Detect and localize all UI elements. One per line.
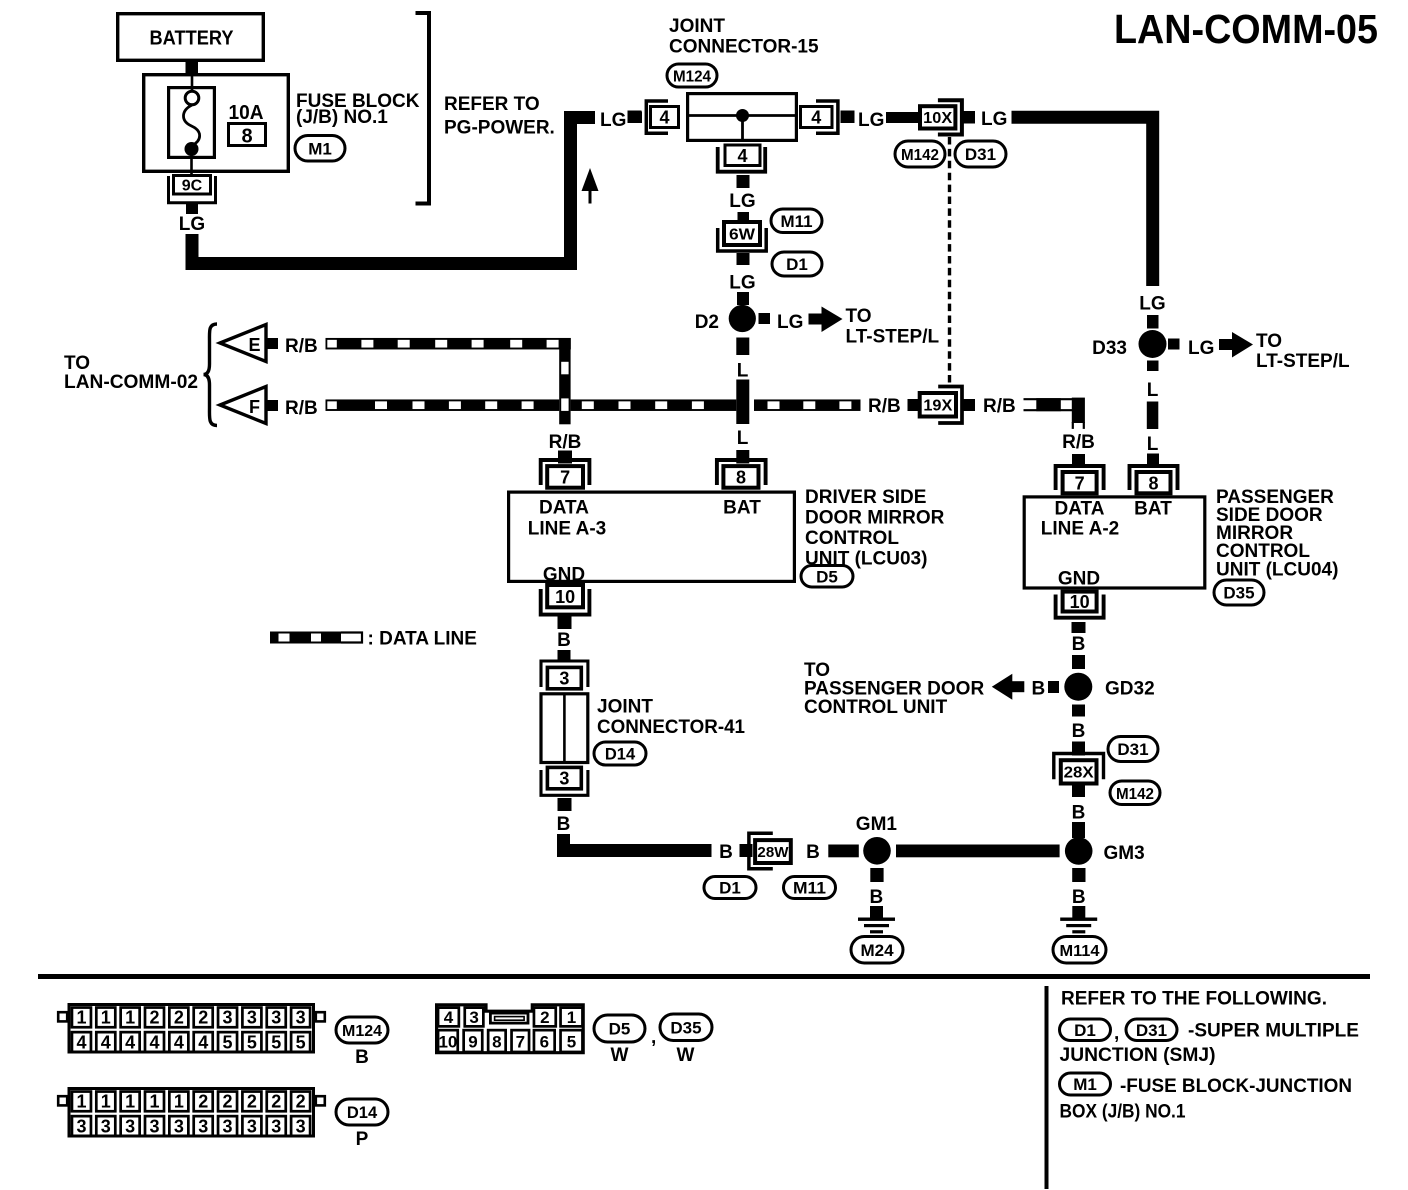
svg-text:2: 2	[198, 1008, 208, 1028]
svg-text:3: 3	[125, 1116, 135, 1136]
svg-text:4: 4	[149, 1032, 159, 1052]
wire stub below D2	[736, 338, 749, 356]
arrow to LT-STEP/L (D2)	[809, 314, 823, 325]
node D2	[695, 305, 756, 333]
svg-text:28X: 28X	[1064, 765, 1094, 782]
svg-text:LINE A-3: LINE A-3	[528, 519, 606, 540]
separator line	[38, 974, 1370, 979]
connector M1 oval (refer)	[1060, 1073, 1111, 1095]
svg-text:PG-POWER.: PG-POWER.	[444, 118, 555, 139]
svg-text:B: B	[557, 814, 571, 835]
label JOINT CONNECTOR-15	[669, 16, 819, 58]
svg-text:5: 5	[271, 1032, 281, 1052]
connector D5 oval	[801, 566, 853, 588]
wire stub	[558, 650, 571, 662]
wire stub E	[268, 338, 279, 349]
LCU04 pin 8	[1130, 466, 1178, 493]
driver side door mirror control unit (LCU03)	[509, 492, 795, 581]
svg-text:M142: M142	[901, 147, 939, 164]
svg-text:3: 3	[223, 1116, 233, 1136]
node D33	[1092, 330, 1166, 359]
connector M11 oval	[771, 209, 822, 233]
svg-text:R/B: R/B	[549, 432, 582, 453]
wire stub right of 19X	[964, 399, 976, 411]
svg-text:L: L	[737, 361, 749, 382]
connector 10X (SMJ)	[920, 100, 962, 134]
wire stub below 6W	[737, 253, 750, 265]
svg-text:6W: 6W	[729, 226, 756, 243]
svg-text:D35: D35	[1223, 584, 1254, 603]
svg-text:3: 3	[223, 1008, 233, 1028]
wire stub above LCU04 pin 8	[1147, 454, 1159, 467]
svg-text:R/B: R/B	[983, 396, 1016, 417]
svg-text:CONTROL UNIT: CONTROL UNIT	[804, 697, 948, 718]
wire stub above LCU03 pin 8	[736, 450, 749, 464]
svg-text:2: 2	[174, 1008, 184, 1028]
LCU04 pin 10	[1056, 592, 1104, 618]
label DRIVER SIDE DOOR MIRROR CONTROL UNIT (LCU03)	[805, 487, 945, 570]
LCU03 pin 8	[717, 460, 766, 488]
svg-text:R/B: R/B	[868, 396, 901, 417]
svg-text:JUNCTION (SMJ): JUNCTION (SMJ)	[1060, 1045, 1216, 1066]
wire stub left of 19X	[908, 399, 919, 411]
svg-text:B: B	[1072, 634, 1086, 655]
svg-text:3: 3	[101, 1116, 111, 1136]
LCU03 pin 7	[541, 460, 590, 488]
pin 4 right	[801, 101, 838, 133]
wire stub above GD32	[1072, 655, 1085, 669]
pin 4 left	[646, 101, 678, 133]
svg-text:DRIVER SIDE: DRIVER SIDE	[805, 487, 926, 508]
label SUPER MULTIPLE JUNCTION (SMJ)	[1060, 1021, 1360, 1067]
svg-text:8: 8	[492, 1032, 501, 1051]
connector M24 oval	[851, 937, 903, 964]
connector M1 oval	[295, 136, 345, 162]
wire stub below LCU04 pin 10	[1072, 622, 1086, 633]
svg-text:D31: D31	[1117, 740, 1148, 759]
svg-text:LAN-COMM-02: LAN-COMM-02	[64, 372, 198, 393]
svg-text:D1: D1	[1074, 1021, 1096, 1040]
svg-text:F: F	[249, 397, 260, 417]
svg-text:LG: LG	[179, 214, 205, 235]
svg-text:JOINT: JOINT	[669, 16, 725, 37]
node GM1	[856, 814, 898, 865]
svg-text:W: W	[611, 1045, 629, 1066]
connector 9C	[169, 176, 216, 215]
svg-text:DATA: DATA	[1055, 499, 1105, 520]
wire LG main power (9C to joint connector-15)	[192, 118, 595, 264]
connector face D14 (pin grid)	[58, 1089, 325, 1137]
svg-text:GM3: GM3	[1104, 843, 1145, 864]
svg-text:B: B	[1032, 679, 1046, 700]
svg-text:BOX (J/B) NO.1: BOX (J/B) NO.1	[1060, 1102, 1186, 1123]
svg-text:: DATA LINE: : DATA LINE	[368, 629, 477, 650]
connector M114 oval	[1053, 937, 1106, 964]
label PASSENGER SIDE DOOR MIRROR CONTROL UNIT (LCU04)	[1216, 487, 1338, 581]
svg-text:3: 3	[296, 1116, 306, 1136]
svg-text:9: 9	[468, 1032, 477, 1051]
svg-text:UNIT (LCU04): UNIT (LCU04)	[1216, 560, 1338, 581]
svg-text:REFER TO: REFER TO	[444, 94, 540, 115]
svg-text:L: L	[1147, 380, 1159, 401]
svg-text:-FUSE BLOCK-JUNCTION: -FUSE BLOCK-JUNCTION	[1120, 1076, 1352, 1097]
svg-text:4: 4	[737, 146, 747, 166]
connector M124 oval	[667, 64, 717, 87]
label TO LT-STEP/L (D33)	[1256, 331, 1350, 372]
svg-text:2: 2	[247, 1092, 257, 1112]
svg-text:5: 5	[223, 1032, 233, 1052]
svg-text:DOOR MIRROR: DOOR MIRROR	[805, 508, 945, 529]
svg-text:D1: D1	[786, 255, 808, 274]
svg-text:LT-STEP/L: LT-STEP/L	[1256, 351, 1350, 372]
wire stub below D33	[1147, 361, 1159, 372]
svg-text:W: W	[677, 1045, 695, 1066]
node GD32	[1064, 673, 1154, 701]
svg-text:2: 2	[271, 1092, 281, 1112]
svg-text:4: 4	[101, 1032, 111, 1052]
wire stub above D33	[1147, 315, 1159, 329]
connector D14 oval	[594, 742, 646, 765]
svg-text:LG: LG	[600, 110, 626, 131]
label TO LT-STEP/L (D2)	[846, 306, 940, 348]
svg-text:5: 5	[296, 1032, 306, 1052]
node F to LAN-COMM-02	[220, 387, 266, 424]
connector D1 oval	[772, 252, 822, 276]
svg-text:CONNECTOR-41: CONNECTOR-41	[597, 717, 745, 738]
wire L bar	[1147, 402, 1159, 430]
connector D5 oval (face)	[594, 1015, 645, 1042]
svg-text:D35: D35	[670, 1018, 701, 1037]
wire stub below GD32	[1072, 705, 1085, 717]
svg-text:E: E	[248, 335, 260, 355]
svg-text:4: 4	[659, 108, 669, 128]
svg-text:,: ,	[1114, 1023, 1119, 1044]
svg-text:BAT: BAT	[1134, 499, 1172, 520]
wire stub right of D33	[1168, 339, 1180, 350]
svg-text:B: B	[1072, 721, 1086, 742]
svg-text:D14: D14	[347, 1104, 378, 1122]
svg-text:BAT: BAT	[723, 498, 761, 519]
svg-text:8: 8	[1148, 473, 1158, 493]
svg-text:L: L	[737, 428, 749, 449]
svg-text:M11: M11	[781, 213, 813, 231]
svg-text:10A: 10A	[229, 102, 264, 124]
svg-text:2: 2	[149, 1008, 159, 1028]
svg-text:LG: LG	[981, 109, 1007, 130]
connector M142 oval (28X)	[1110, 781, 1160, 805]
node GM3	[1065, 837, 1145, 865]
wire stub	[738, 212, 750, 226]
svg-text:D31: D31	[1136, 1021, 1167, 1040]
connector D1 oval (28W)	[704, 877, 756, 899]
svg-text:M142: M142	[1116, 786, 1154, 803]
svg-text:-SUPER MULTIPLE: -SUPER MULTIPLE	[1188, 1021, 1359, 1042]
passenger side door mirror control unit (LCU04)	[1024, 497, 1205, 588]
label DATA LINE A-2	[1041, 499, 1119, 540]
svg-text:R/B: R/B	[1062, 432, 1095, 453]
svg-text:M1: M1	[308, 139, 332, 158]
arrow to passenger door control unit	[992, 674, 1013, 700]
svg-text:2: 2	[198, 1092, 208, 1112]
wire stub right of D2	[759, 313, 771, 324]
svg-text:5: 5	[567, 1032, 576, 1051]
ground M24	[858, 906, 895, 933]
connector face D5/D35 (pin grid)	[437, 1005, 584, 1053]
svg-text:3: 3	[198, 1116, 208, 1136]
wire stub below pin 4	[737, 175, 750, 188]
svg-text:L: L	[1147, 434, 1159, 455]
svg-text:1: 1	[101, 1008, 111, 1028]
connector M11 oval (28W)	[784, 877, 836, 899]
svg-text:GND: GND	[543, 565, 585, 586]
connector 28X (SMJ)	[1054, 754, 1104, 784]
svg-text:B: B	[1072, 887, 1086, 908]
bracket refer to pg-power	[416, 13, 430, 204]
svg-text:3: 3	[174, 1116, 184, 1136]
svg-text:5: 5	[247, 1032, 257, 1052]
wire stub	[737, 292, 749, 305]
LCU04 pin 7	[1056, 466, 1104, 493]
data line F row mid	[571, 399, 737, 411]
svg-text:GM1: GM1	[856, 814, 898, 835]
svg-text:8: 8	[736, 468, 746, 488]
connector D14 oval (face)	[336, 1099, 388, 1125]
joint connector-41 pin 3 top	[541, 661, 588, 689]
wire stub left of 28W	[740, 844, 753, 857]
svg-text:3: 3	[559, 669, 569, 689]
node E to LAN-COMM-02	[220, 325, 266, 362]
wire stub right	[841, 111, 855, 124]
connector D31 oval (refer)	[1126, 1019, 1177, 1041]
label TO PASSENGER DOOR CONTROL UNIT	[804, 660, 984, 718]
svg-text:3: 3	[296, 1008, 306, 1028]
svg-text:M114: M114	[1060, 943, 1100, 960]
svg-text:10X: 10X	[923, 110, 952, 127]
label JOINT CONNECTOR-41	[597, 697, 745, 739]
ground M114	[1060, 906, 1097, 933]
svg-text:4: 4	[444, 1008, 454, 1027]
data line F row right	[754, 399, 861, 411]
wire stub right of 10X	[962, 111, 976, 124]
connector D35 oval	[1214, 580, 1264, 605]
wire stub below LCU03 pin 10	[558, 617, 572, 630]
svg-text:D14: D14	[605, 746, 636, 764]
svg-text:B: B	[355, 1047, 369, 1068]
wire B to GM1	[828, 845, 859, 858]
connector 19X (SMJ)	[920, 387, 962, 424]
svg-text:19X: 19X	[923, 397, 952, 414]
curly brace	[204, 324, 218, 426]
connector 28W (SMJ)	[749, 833, 791, 869]
svg-text:4: 4	[125, 1032, 135, 1052]
svg-text:7: 7	[516, 1032, 525, 1051]
pin 4 bottom	[718, 145, 766, 172]
svg-text:4: 4	[174, 1032, 184, 1052]
svg-text:3: 3	[271, 1008, 281, 1028]
svg-text:D33: D33	[1092, 338, 1127, 359]
svg-text:10: 10	[555, 587, 575, 607]
wire stub above GM3	[1072, 822, 1085, 838]
wire LG to 10X	[886, 112, 919, 123]
svg-text:D2: D2	[695, 312, 719, 333]
svg-text:P: P	[356, 1129, 369, 1150]
svg-text:2: 2	[296, 1092, 306, 1112]
svg-text:M124: M124	[342, 1023, 382, 1040]
svg-text:B: B	[557, 630, 571, 651]
svg-text:7: 7	[1075, 473, 1085, 493]
svg-text:GD32: GD32	[1105, 679, 1155, 700]
wire stub to pin 7	[558, 451, 572, 464]
wire stub	[631, 112, 642, 124]
svg-text:1: 1	[76, 1092, 86, 1112]
svg-text:1: 1	[125, 1092, 135, 1112]
svg-text:3: 3	[271, 1116, 281, 1136]
svg-text:CONNECTOR-15: CONNECTOR-15	[669, 37, 819, 58]
connector D31 oval (28X)	[1108, 737, 1158, 762]
wire R/B to LCU04 pin 7	[1024, 398, 1085, 429]
svg-text:4: 4	[811, 108, 821, 128]
connector M124 oval (face)	[336, 1017, 388, 1043]
wire stub below GM1	[870, 868, 883, 882]
data line corner vertical	[559, 338, 570, 424]
svg-text:1: 1	[101, 1092, 111, 1112]
label DATA LINE A-3	[528, 498, 606, 540]
svg-text:D5: D5	[816, 567, 838, 586]
svg-text:1: 1	[125, 1008, 135, 1028]
svg-text:TO: TO	[64, 353, 90, 374]
svg-text:1: 1	[174, 1092, 184, 1112]
svg-text:R/B: R/B	[285, 398, 318, 419]
svg-text:GND: GND	[1058, 569, 1100, 590]
svg-text:R/B: R/B	[285, 336, 318, 357]
svg-text:3: 3	[247, 1116, 257, 1136]
wire stub left of GD32	[1048, 681, 1059, 693]
svg-text:M11: M11	[793, 880, 826, 898]
svg-text:LG: LG	[1139, 294, 1165, 315]
svg-text:10: 10	[1070, 592, 1090, 612]
arrow to LT-STEP/L (D33)	[1219, 339, 1233, 350]
svg-text:10: 10	[438, 1032, 457, 1051]
joint connector-41 body	[541, 694, 588, 763]
svg-text:CONTROL: CONTROL	[805, 528, 899, 549]
svg-text:2: 2	[540, 1008, 549, 1027]
label FUSE BLOCK-JUNCTION BOX (J/B) NO.1	[1060, 1076, 1353, 1123]
connector D35 oval (face)	[660, 1014, 712, 1041]
wire stub left	[628, 111, 642, 124]
wire stub above 28X	[1072, 742, 1085, 756]
svg-text:28W: 28W	[757, 844, 789, 861]
svg-text:1: 1	[149, 1092, 159, 1112]
dashed SMJ line 10X to 19X	[948, 137, 951, 384]
svg-text:M24: M24	[860, 941, 894, 960]
svg-text:TO: TO	[1256, 331, 1282, 352]
svg-text:7: 7	[560, 468, 570, 488]
svg-text:REFER TO THE FOLLOWING.: REFER TO THE FOLLOWING.	[1061, 989, 1327, 1010]
svg-text:LT-STEP/L: LT-STEP/L	[846, 327, 940, 348]
svg-text:B: B	[870, 887, 884, 908]
svg-text:(J/B) NO.1: (J/B) NO.1	[296, 107, 388, 128]
svg-text:LG: LG	[729, 273, 755, 294]
svg-text:LAN-COMM-05: LAN-COMM-05	[1114, 6, 1378, 52]
joint connector-15 body	[686, 94, 798, 142]
LCU03 pin 10	[541, 585, 590, 615]
svg-text:LG: LG	[729, 191, 755, 212]
joint connector-41 pin 3 bottom	[541, 767, 588, 795]
label REFER TO PG-POWER	[444, 94, 555, 139]
svg-text:JOINT: JOINT	[597, 697, 653, 718]
svg-text:DATA: DATA	[539, 498, 589, 519]
data line F row left	[326, 399, 560, 411]
wire stub below 28X	[1072, 786, 1085, 798]
svg-text:BATTERY: BATTERY	[150, 28, 235, 50]
up arrow on LG wire	[582, 168, 599, 204]
fuse 10A 8	[229, 102, 266, 148]
svg-text:9C: 9C	[182, 177, 203, 194]
svg-text:D5: D5	[609, 1020, 631, 1039]
wire stub F	[268, 400, 279, 411]
svg-text:D31: D31	[965, 145, 996, 164]
fuse block label	[296, 91, 420, 128]
svg-text:3: 3	[247, 1008, 257, 1028]
svg-text:6: 6	[540, 1032, 549, 1051]
svg-text:3: 3	[149, 1116, 159, 1136]
svg-text:LG: LG	[1188, 338, 1214, 359]
svg-text:4: 4	[198, 1032, 208, 1052]
wire stub below GM3	[1072, 868, 1085, 882]
refer block divider	[1045, 986, 1049, 1189]
svg-text:B: B	[806, 842, 820, 863]
svg-text:B: B	[719, 842, 733, 863]
connector D1 oval (refer)	[1060, 1019, 1111, 1041]
svg-text:3: 3	[76, 1116, 86, 1136]
svg-text:M124: M124	[673, 69, 711, 86]
data line E row	[326, 338, 571, 350]
svg-text:LG: LG	[858, 110, 884, 131]
connector M142 oval	[895, 141, 945, 167]
wire L crossing bar	[736, 380, 749, 425]
svg-text:4: 4	[76, 1032, 86, 1052]
svg-text:B: B	[1072, 803, 1086, 824]
svg-text:3: 3	[559, 769, 569, 789]
svg-text:1: 1	[76, 1008, 86, 1028]
wire stub below joint connector-41	[558, 798, 572, 811]
fuse block (J/B) NO.1	[144, 74, 289, 175]
data line legend symbol	[270, 632, 362, 644]
svg-text:LG: LG	[777, 312, 803, 333]
connector face M124 (pin grid)	[58, 1005, 325, 1053]
wire stub to LCU04 pin 7	[1072, 454, 1085, 465]
svg-text:8: 8	[241, 126, 252, 148]
wire B bottom run	[564, 834, 712, 851]
battery	[118, 14, 264, 73]
svg-text:2: 2	[223, 1092, 233, 1112]
connector 6W	[718, 222, 767, 251]
connector D31 oval	[955, 141, 1006, 167]
label TO LAN-COMM-02	[64, 353, 198, 393]
svg-text:TO: TO	[846, 306, 872, 327]
svg-text:3: 3	[469, 1008, 478, 1027]
wire LG to right corner down to D33	[1012, 117, 1153, 286]
svg-text:D1: D1	[719, 879, 741, 898]
svg-text:1: 1	[567, 1008, 576, 1027]
svg-text:M1: M1	[1073, 1075, 1097, 1094]
svg-text:,: ,	[651, 1027, 656, 1048]
wire GM1 to GM3	[896, 845, 1060, 858]
svg-text:LINE A-2: LINE A-2	[1041, 519, 1119, 540]
